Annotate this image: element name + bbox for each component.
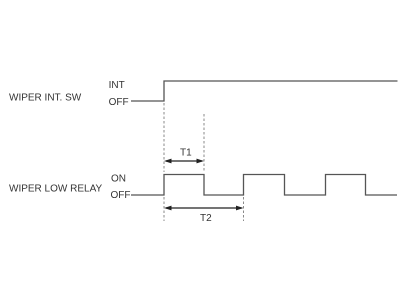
svg-text:OFF: OFF [109,97,129,108]
svg-text:WIPER INT. SW: WIPER INT. SW [9,93,82,104]
dashed line at x=164 (upper) [163,103,165,172]
svg-text:ON: ON [111,174,126,185]
dashed line at x=164 (lower) [163,197,165,221]
svg-text:T2: T2 [200,213,212,224]
svg-text:OFF: OFF [111,190,131,201]
arrow T2 [164,206,244,211]
dashed line at x=243.5 (lower) [243,197,245,221]
svg-text:T1: T1 [180,148,192,159]
svg-text:INT: INT [109,80,125,91]
dashed line at x=204 [203,114,205,172]
arrow T1 [164,159,204,164]
waveform WIPER LOW RELAY trace [131,175,397,196]
svg-text:WIPER LOW RELAY: WIPER LOW RELAY [9,184,102,195]
waveform WIPER INT. SW trace [131,81,398,101]
